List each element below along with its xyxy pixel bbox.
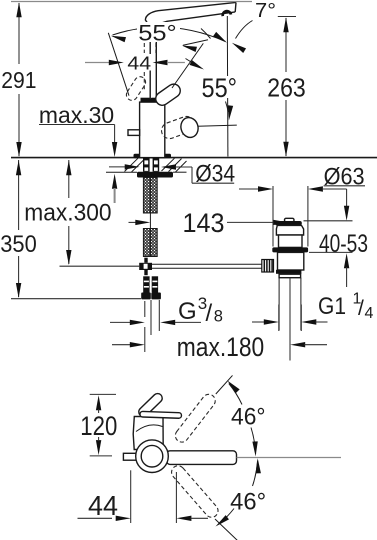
dimension 350 bbox=[0, 160, 141, 299]
dimension 44 bottom bbox=[78, 470, 209, 523]
svg-text:max.300: max.300 bbox=[24, 200, 111, 227]
svg-text:Ø34: Ø34 bbox=[195, 161, 235, 188]
body side tab bbox=[128, 130, 140, 136]
svg-text:44: 44 bbox=[88, 490, 118, 521]
dimension 120 bbox=[80, 394, 117, 456]
callout max.30 bbox=[39, 102, 117, 203]
waste body bbox=[278, 252, 304, 270]
waste upper cylinder bbox=[279, 235, 303, 247]
top-view lever bar bbox=[167, 451, 237, 465]
dimension diam.34 bbox=[109, 161, 235, 188]
svg-text:263: 263 bbox=[267, 73, 306, 103]
wire top extension line bbox=[11, 1, 252, 3]
svg-text:40-53: 40-53 bbox=[319, 230, 368, 258]
top-view spout stub bbox=[123, 453, 136, 460]
dimension diam.63 bbox=[239, 163, 365, 246]
waste plug lid bbox=[275, 221, 302, 225]
pop-up rod bbox=[139, 258, 262, 276]
dimension 291 bbox=[1, 2, 36, 157]
svg-text:55°: 55° bbox=[202, 73, 238, 103]
svg-text:46°: 46° bbox=[231, 404, 266, 431]
svg-text:350: 350 bbox=[0, 231, 37, 258]
dimension 263 bbox=[267, 17, 306, 157]
svg-text:120: 120 bbox=[80, 411, 117, 441]
node 55 radial line bbox=[172, 43, 203, 88]
dimension max.180 bbox=[112, 332, 327, 362]
flexible hose right bbox=[150, 178, 157, 257]
svg-text:/: / bbox=[358, 297, 364, 320]
waste lift knob bbox=[285, 218, 295, 222]
handle dashed down-right position bbox=[159, 114, 237, 141]
node vertical reference line at spout tip bbox=[226, 16, 229, 157]
svg-text:G: G bbox=[178, 298, 197, 325]
dimension 40-53 bbox=[304, 189, 369, 287]
svg-text:44: 44 bbox=[127, 52, 151, 73]
waste flange bbox=[272, 247, 308, 252]
pop-up waste assembly bbox=[262, 218, 308, 360]
angle 7 top-right bbox=[230, 0, 276, 53]
waste locknut bbox=[279, 274, 301, 278]
lever centerline extension bbox=[237, 457, 342, 459]
svg-text:143: 143 bbox=[183, 208, 225, 238]
angle 46 top bbox=[225, 379, 265, 457]
aerator dome bbox=[221, 10, 232, 17]
mounting washer under deck bbox=[137, 172, 173, 178]
top-view escutcheon ring bbox=[136, 440, 169, 473]
svg-text:4: 4 bbox=[365, 305, 374, 322]
flexible hose left bbox=[143, 178, 150, 257]
top-view handle knob bbox=[137, 392, 164, 419]
hose connector nipples G3/8 bbox=[141, 276, 161, 299]
svg-text:291: 291 bbox=[1, 67, 36, 93]
svg-text:55°: 55° bbox=[138, 20, 177, 45]
node hose break centerline bbox=[149, 213, 151, 229]
svg-text:max.180: max.180 bbox=[177, 332, 265, 362]
svg-text:G1: G1 bbox=[318, 293, 346, 320]
svg-text:46°: 46° bbox=[230, 488, 266, 515]
svg-text:8: 8 bbox=[214, 308, 223, 326]
angle 46 bottom bbox=[214, 458, 266, 528]
rod knurled connector bbox=[262, 260, 274, 273]
dimension 44 top bbox=[85, 43, 185, 91]
dimension 143 bbox=[129, 208, 289, 238]
dimension G3/8 bbox=[110, 294, 223, 352]
dimension max.300 bbox=[24, 160, 139, 266]
waste tailpipe bbox=[278, 278, 280, 331]
angle 55 right (spout swivel) bbox=[181, 29, 238, 121]
faucet shank through deck bbox=[143, 158, 159, 172]
dashed lever down position bbox=[169, 463, 238, 540]
waste neck bbox=[276, 225, 303, 235]
svg-text:7°: 7° bbox=[255, 0, 276, 22]
faucet body bbox=[134, 98, 172, 159]
top-view handle lever bar bbox=[140, 411, 182, 418]
angle 55 upper-left bbox=[108, 20, 228, 95]
faucet handle (solid) bbox=[153, 82, 183, 108]
top-view faucet body bbox=[123, 392, 236, 473]
rod T-fitting bbox=[139, 263, 152, 270]
handle dashed up-left position bbox=[124, 75, 147, 103]
dimension G1 1/4 bbox=[252, 291, 374, 332]
dashed lever up position bbox=[173, 375, 233, 444]
svg-text:/: / bbox=[206, 300, 213, 327]
countertop deck bbox=[11, 158, 377, 173]
faucet spout outline bbox=[145, 2, 236, 99]
